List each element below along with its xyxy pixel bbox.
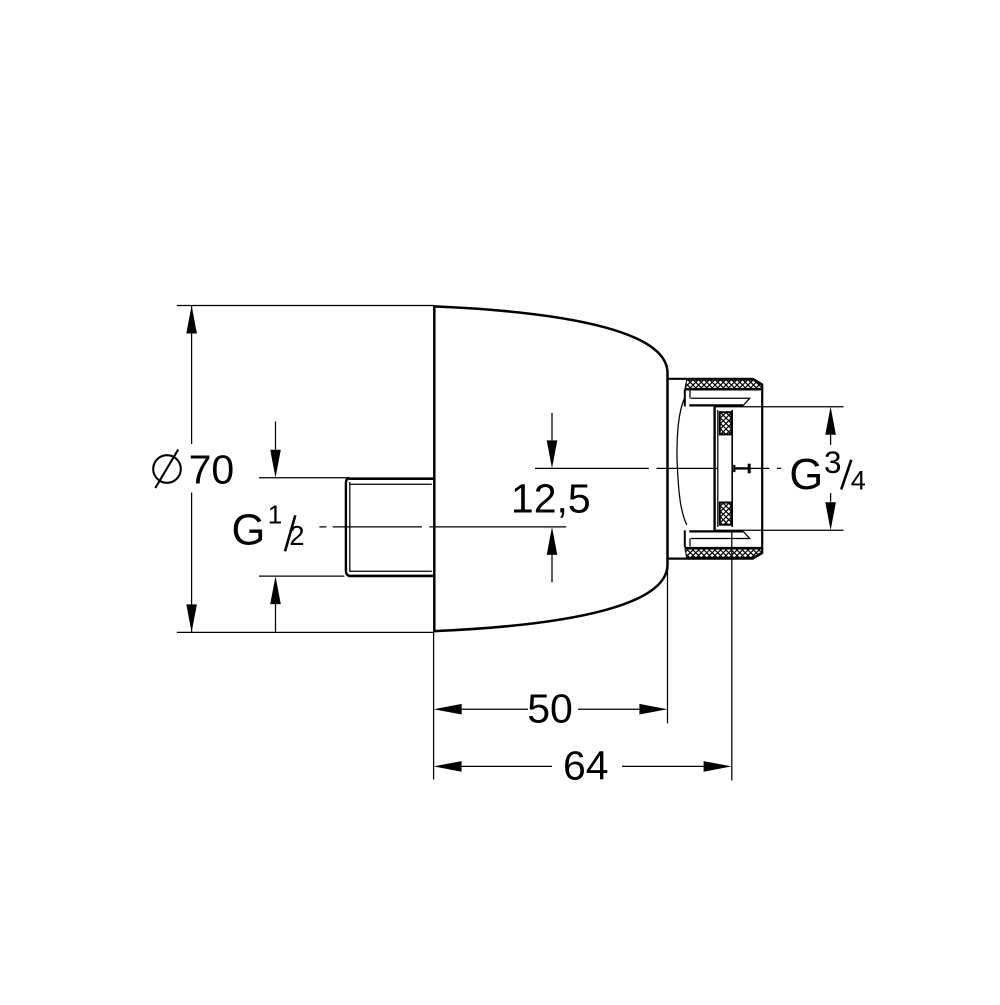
dimension Ø70 label [153, 446, 234, 492]
main axis centerline [535, 467, 781, 469]
svg-text:G: G [232, 506, 266, 554]
svg-text:70: 70 [189, 446, 235, 492]
dimension G1/2 label [232, 499, 305, 554]
tailpiece inner wall line [717, 410, 719, 527]
tailpiece left wall [713, 407, 715, 531]
stub centerline [319, 526, 566, 528]
dimension Ø70 arrow down [186, 604, 197, 632]
svg-text:64: 64 [563, 742, 609, 788]
dimension G1/2 arrow up [270, 576, 281, 633]
thread stub G1/2 left chamfer outer line [346, 478, 350, 576]
thread stub G1/2 bottom minor-diameter line [349, 570, 432, 572]
svg-text:2: 2 [289, 520, 304, 551]
thread stub G1/2 left chamfer inner line [349, 482, 351, 572]
thread stub G1/2 top minor-diameter line [349, 483, 432, 485]
dimension 50 line with arrows [434, 704, 668, 715]
svg-text:3: 3 [824, 444, 842, 480]
dimension G1/2 bottom extension line [259, 575, 344, 577]
knurled band bottom upper edge [685, 547, 764, 549]
extension line 64 right [731, 530, 733, 780]
dimension Ø70 dimension line [191, 306, 193, 633]
svg-text:1: 1 [268, 499, 282, 529]
knurled band top lower edge [685, 388, 764, 390]
dimension G3/4 label [789, 444, 865, 499]
extension line 50 right [667, 568, 669, 723]
dimension 64 line with arrows [434, 761, 732, 772]
knurled band bottom [685, 549, 762, 557]
body dome outline [434, 306, 667, 631]
gasket bottom [720, 503, 732, 525]
nut front lip bottom details [685, 530, 750, 547]
dimension Ø70 top extension line [177, 305, 434, 307]
knurled band top [685, 380, 762, 388]
dimension 12,5 arrow up [547, 527, 558, 582]
union nut outer outline bottom [668, 553, 763, 559]
svg-text:4: 4 [851, 465, 866, 495]
gasket top [720, 412, 732, 434]
union nut right edge [761, 384, 763, 554]
extension line 50/64 left [433, 632, 435, 779]
thread stub G1/2 top edge [349, 477, 434, 480]
svg-text:50: 50 [527, 685, 573, 731]
dimension G1/2 top extension line [259, 477, 349, 479]
dimension G1/2 arrow down [270, 422, 281, 478]
svg-text:G: G [789, 451, 823, 499]
break line wavy [677, 398, 687, 525]
nut front lip top details [685, 390, 750, 407]
tailpiece sealing face line [731, 410, 733, 527]
center pin [734, 464, 750, 474]
svg-text:12,5: 12,5 [511, 475, 591, 521]
dimension Ø70 bottom extension line [177, 631, 434, 633]
dimension G3/4 dimension line with arrows [825, 407, 836, 531]
G3/4 bottom extension line [715, 529, 844, 531]
G3/4 top extension line [715, 406, 844, 408]
dimension 12,5 arrow down [547, 413, 558, 468]
thread stub G1/2 bottom edge [349, 575, 434, 578]
dimension Ø70 arrow up [186, 306, 197, 334]
union nut outer outline top [668, 379, 763, 385]
